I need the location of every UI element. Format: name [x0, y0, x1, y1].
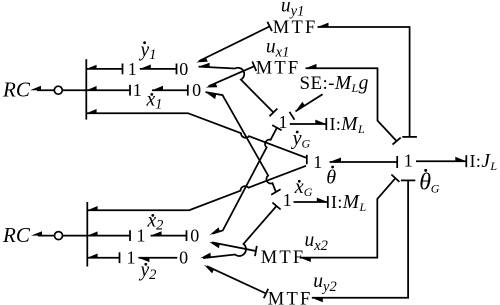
svg-text:MTF: MTF — [273, 18, 318, 38]
svg-text:1: 1 — [128, 59, 137, 79]
svg-text:0: 0 — [179, 59, 188, 79]
svg-text:MTF: MTF — [256, 59, 301, 79]
svg-text:1: 1 — [127, 248, 136, 268]
svg-text:1: 1 — [283, 190, 292, 210]
svg-text:1: 1 — [279, 112, 288, 132]
svg-text:RC: RC — [2, 78, 31, 102]
svg-text:0: 0 — [190, 226, 199, 246]
svg-text:1: 1 — [137, 226, 146, 246]
svg-text:uy1: uy1 — [281, 0, 304, 19]
svg-text:SE:-MLg: SE:-MLg — [300, 73, 369, 95]
svg-text:G: G — [431, 181, 440, 195]
svg-text:MTF: MTF — [261, 248, 306, 268]
svg-text:θ: θ — [326, 167, 336, 189]
svg-text:RC: RC — [2, 223, 31, 247]
svg-text:0: 0 — [192, 80, 201, 100]
svg-text:0: 0 — [179, 248, 188, 268]
svg-text:1: 1 — [313, 152, 322, 172]
svg-text:1: 1 — [133, 80, 142, 100]
svg-text:θ: θ — [419, 169, 431, 195]
svg-text:MTF: MTF — [268, 290, 313, 305]
svg-text:1: 1 — [404, 150, 413, 170]
